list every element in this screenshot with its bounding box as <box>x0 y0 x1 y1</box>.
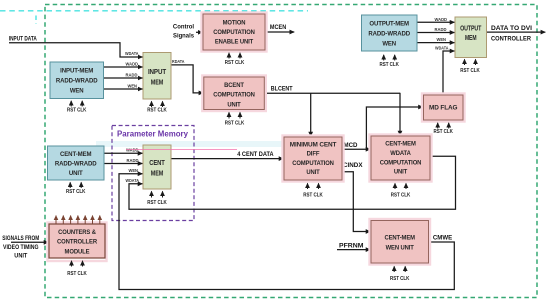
svg-text:CENT-MEM: CENT-MEM <box>60 151 92 158</box>
svg-text:MOTION: MOTION <box>223 19 246 26</box>
svg-text:ENABLE UNIT: ENABLE UNIT <box>215 39 253 46</box>
svg-text:SIGNALS FROM: SIGNALS FROM <box>2 235 39 242</box>
RST CLK group U6 <box>460 59 480 74</box>
svg-text:RADD-WRADD: RADD-WRADD <box>55 160 97 167</box>
wire WADD input-mem <box>104 66 143 68</box>
svg-text:VIDEO TIMING: VIDEO TIMING <box>3 244 39 251</box>
wire PFRNM <box>337 249 370 251</box>
block U6 OUTPUT MEM <box>455 17 487 58</box>
svg-text:RST CLK: RST CLK <box>433 129 453 135</box>
svg-text:COUNTERS &: COUNTERS & <box>58 229 96 236</box>
svg-text:RST CLK: RST CLK <box>390 276 410 282</box>
RST CLK group U4 <box>225 112 245 126</box>
counters control up-arrows <box>56 216 100 224</box>
wire WEN output-mem <box>417 42 454 44</box>
wire WDATA feedback to CENT MEM <box>129 156 456 209</box>
RST CLK group U9 <box>147 191 167 206</box>
wire MCD <box>342 148 370 150</box>
svg-text:DIFF: DIFF <box>307 151 320 158</box>
svg-text:UNIT: UNIT <box>14 252 27 259</box>
svg-text:WEN: WEN <box>437 37 447 42</box>
wire BLCENT <box>265 92 400 94</box>
svg-text:OUTPUT-MEM: OUTPUT-MEM <box>369 20 409 27</box>
wire WADD cent-mem <box>104 152 142 154</box>
svg-text:COMPUTATION: COMPUTATION <box>213 92 255 99</box>
wire SIGNALS FROM VIDEO TIMING <box>11 241 48 243</box>
svg-text:MCEN: MCEN <box>270 25 286 31</box>
block U1 INPUT-MEM RADD-WRADD WEN <box>50 62 104 99</box>
RST CLK group U10 <box>303 183 323 198</box>
svg-text:BCENT: BCENT <box>224 82 244 89</box>
wire RADD output-mem <box>417 32 454 34</box>
wire WEN input-mem <box>104 88 143 90</box>
wire RADD cent-mem <box>104 163 142 165</box>
wire WADD output-mem <box>417 21 454 23</box>
svg-text:RDATA: RDATA <box>172 59 185 64</box>
svg-text:RADD: RADD <box>127 158 140 163</box>
RST CLK group U1 <box>67 101 87 114</box>
RST CLK group U2 <box>147 101 167 113</box>
svg-text:UNIT: UNIT <box>69 170 83 177</box>
svg-text:RADD: RADD <box>435 27 448 32</box>
svg-text:RADD: RADD <box>126 73 139 78</box>
svg-text:RST CLK: RST CLK <box>147 200 167 206</box>
wire MCEN <box>265 31 294 33</box>
svg-text:WEN: WEN <box>382 40 396 47</box>
svg-text:RST CLK: RST CLK <box>225 120 245 126</box>
RST CLK group U3 <box>225 53 245 66</box>
wire 4 CENT DATA <box>171 158 283 160</box>
svg-text:RST CLK: RST CLK <box>66 189 86 195</box>
wire MD FLAG input <box>366 107 423 149</box>
svg-text:UNIT: UNIT <box>306 169 320 176</box>
wire MD FLAG to OUTPUT MEM WDATA <box>443 51 454 95</box>
RST CLK group U12 <box>390 266 410 282</box>
svg-text:RST CLK: RST CLK <box>391 192 411 198</box>
artifact cyan band <box>96 141 332 147</box>
svg-text:RST CLK: RST CLK <box>460 68 480 74</box>
svg-text:UNIT: UNIT <box>394 169 408 176</box>
svg-text:MEM: MEM <box>151 80 164 87</box>
svg-text:WDATA: WDATA <box>435 46 449 51</box>
wire CMWE WEN feedback to CENT MEM <box>119 174 454 290</box>
RST CLK group U8 <box>66 182 86 195</box>
RST CLK group U11 <box>391 183 411 198</box>
svg-text:Parameter Memory: Parameter Memory <box>117 130 189 139</box>
svg-text:CENT-MEM: CENT-MEM <box>385 141 416 148</box>
wire DATA TO DVI <box>487 31 546 33</box>
cyan dashed line top <box>0 10 308 12</box>
RST CLK group U5 <box>379 55 399 68</box>
svg-text:INPUT DATA: INPUT DATA <box>9 37 38 43</box>
svg-text:RADD-WRADD: RADD-WRADD <box>56 78 98 85</box>
wire BLCENT branch to CENT-MEM WDATA <box>399 93 401 136</box>
svg-text:INPUT-MEM: INPUT-MEM <box>60 68 94 75</box>
svg-text:MCD: MCD <box>344 143 359 149</box>
svg-text:INPUT: INPUT <box>148 69 167 76</box>
svg-text:CINDX: CINDX <box>343 163 363 169</box>
Parameter Memory dashed region <box>112 126 194 221</box>
svg-text:WDATA: WDATA <box>390 150 411 157</box>
wire BLCENT branch to MIN CENT <box>310 93 312 136</box>
block U9 CENT MEM <box>143 145 171 189</box>
svg-text:CENT-MEM: CENT-MEM <box>384 234 415 241</box>
svg-text:RST CLK: RST CLK <box>67 107 87 113</box>
RST CLK group U13 <box>67 261 87 277</box>
block U3 MOTION COMPUTATION ENABLE UNIT <box>202 13 267 52</box>
svg-text:MEM: MEM <box>465 35 477 42</box>
svg-text:RST CLK: RST CLK <box>379 62 399 68</box>
svg-text:WADD: WADD <box>126 148 139 153</box>
svg-text:MEM: MEM <box>151 170 164 177</box>
cyan dash stub <box>35 16 37 24</box>
wire RDATA <box>171 65 203 93</box>
svg-text:PFRNM: PFRNM <box>339 244 364 250</box>
wire control signals <box>196 31 203 33</box>
svg-text:MINIMUM CENT: MINIMUM CENT <box>290 141 337 148</box>
svg-text:WEN: WEN <box>128 84 138 89</box>
svg-text:BLCENT: BLCENT <box>271 87 293 93</box>
svg-text:CONTROLLER: CONTROLLER <box>57 239 97 246</box>
svg-text:WDATA: WDATA <box>126 178 140 183</box>
svg-text:WADD: WADD <box>435 17 448 22</box>
svg-text:WDATA: WDATA <box>125 51 139 56</box>
svg-text:MD FLAG: MD FLAG <box>429 105 457 112</box>
block U12 CENT-MEM WEN UNIT <box>370 219 431 265</box>
block U7 MD FLAG <box>422 94 465 122</box>
block U5 OUTPUT-MEM RADD-WRADD WEN <box>362 15 418 51</box>
svg-text:RST CLK: RST CLK <box>67 271 87 277</box>
svg-text:WADD: WADD <box>126 62 139 67</box>
svg-text:CENT: CENT <box>149 160 165 167</box>
svg-text:COMPUTATION: COMPUTATION <box>213 29 255 36</box>
svg-text:CONTROLLER: CONTROLLER <box>491 37 532 43</box>
svg-text:RST CLK: RST CLK <box>225 60 245 66</box>
svg-text:RST CLK: RST CLK <box>303 192 323 198</box>
wire RADD input-mem <box>104 77 143 79</box>
svg-text:MODULE: MODULE <box>65 248 91 255</box>
RST CLK group U7 <box>433 123 453 135</box>
svg-text:OUTPUT: OUTPUT <box>460 26 482 33</box>
svg-text:RST CLK: RST CLK <box>147 107 167 113</box>
block U10 MINIMUM CENT DIFF COMPUTATION UNIT <box>283 136 344 182</box>
svg-text:WEN: WEN <box>129 168 139 173</box>
svg-text:DATA TO DVI: DATA TO DVI <box>491 26 532 32</box>
svg-text:WEN: WEN <box>70 88 84 95</box>
svg-text:RADD-WRADD: RADD-WRADD <box>368 30 410 37</box>
wire CINDX <box>342 172 370 232</box>
svg-text:CMWE: CMWE <box>433 235 452 241</box>
svg-text:4 CENT DATA: 4 CENT DATA <box>237 152 274 158</box>
svg-text:COMPUTATION: COMPUTATION <box>292 160 334 167</box>
artifact pink line <box>126 148 237 150</box>
svg-text:Control: Control <box>173 25 195 31</box>
block U4 BCENT COMPUTATION UNIT <box>202 76 265 112</box>
wire INPUT DATA <box>9 43 143 57</box>
block U11 CENT-MEM WDATA COMPUTATION UNIT <box>370 135 432 182</box>
block U8 CENT-MEM RADD-WRADD UNIT <box>48 146 105 180</box>
block U13 COUNTERS CONTROLLER MODULE <box>48 223 107 262</box>
svg-text:WEN UNIT: WEN UNIT <box>386 244 414 251</box>
svg-text:UNIT: UNIT <box>227 101 240 108</box>
svg-text:Signals: Signals <box>173 34 195 40</box>
svg-text:COMPUTATION: COMPUTATION <box>380 159 422 166</box>
block U2 INPUT MEM <box>143 53 171 100</box>
